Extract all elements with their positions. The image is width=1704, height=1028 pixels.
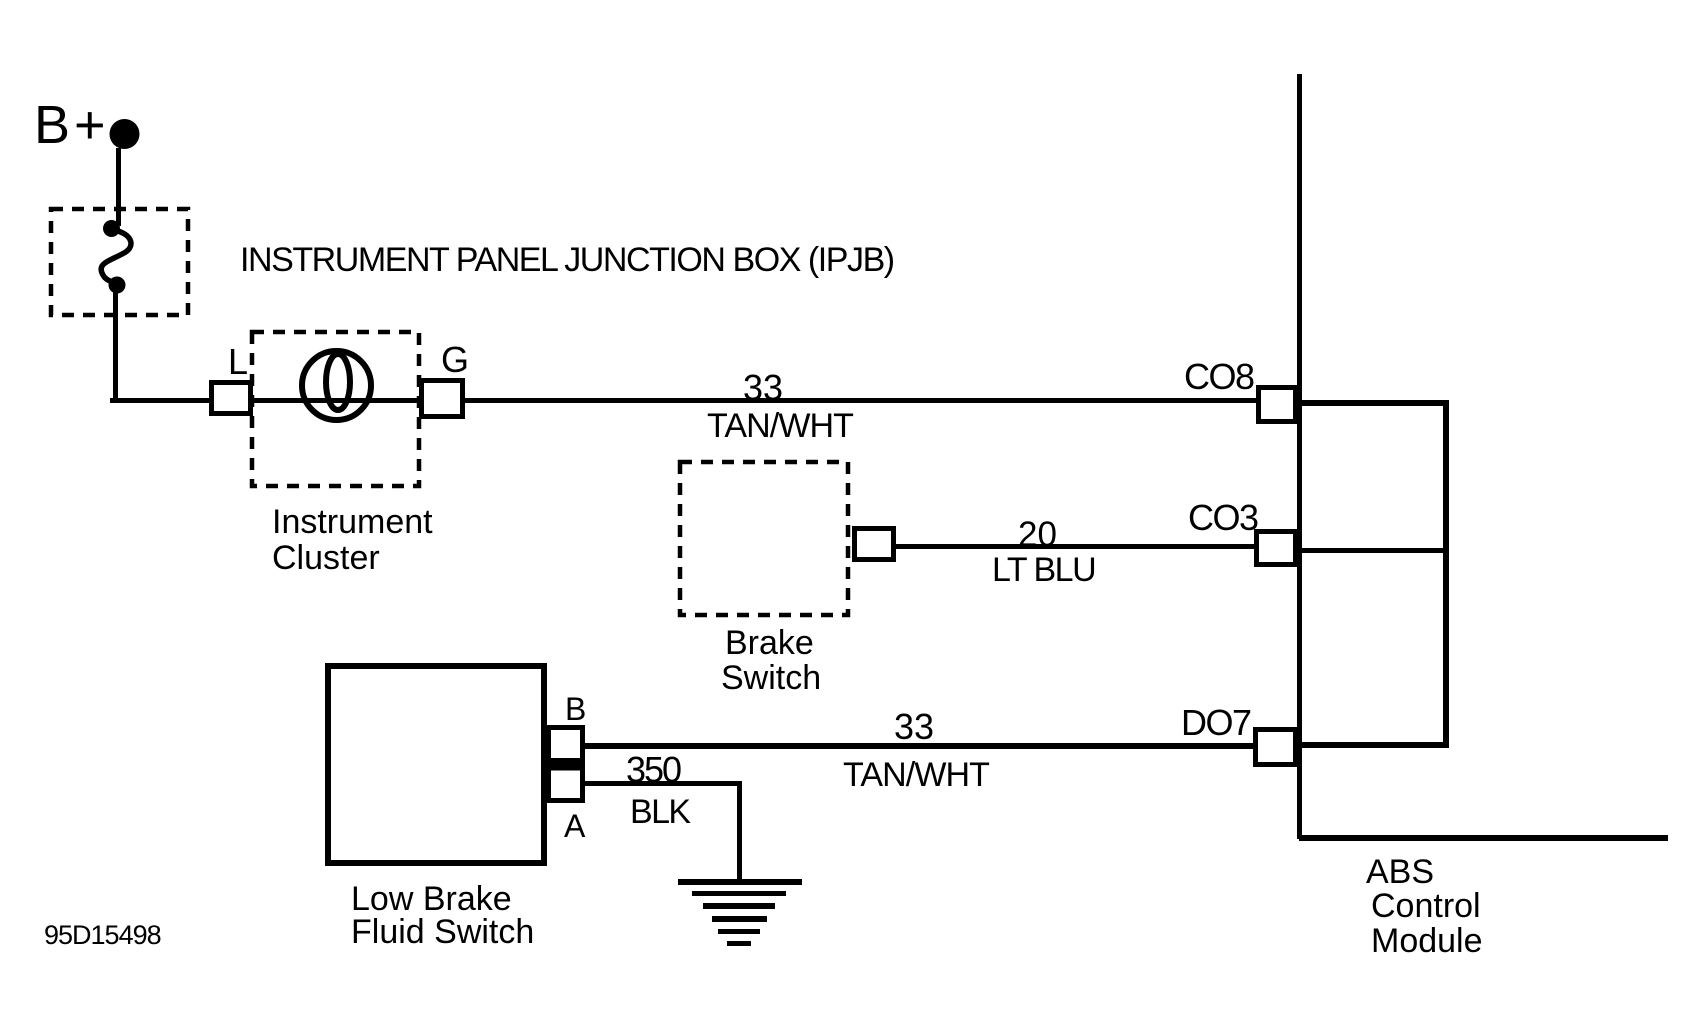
wire: ABS inner box right edge: [1443, 400, 1449, 748]
node B+ junction dot: [110, 119, 140, 149]
svg-text:TAN/WHT: TAN/WHT: [843, 756, 989, 794]
svg-text:TAN/WHT: TAN/WHT: [707, 407, 853, 445]
svg-text:DO7: DO7: [1181, 702, 1251, 743]
wire: circuit 33 TAN/WHT from pin B to DO7: [585, 743, 1255, 749]
indicator lamp filament loop: [326, 354, 350, 410]
connector CO8 square: [1259, 388, 1296, 422]
wire: circuit 350 BLK vertical drop to ground: [737, 781, 742, 880]
svg-text:LT BLU: LT BLU: [992, 551, 1095, 589]
wire: CO3 row inside ABS inner box: [1299, 548, 1449, 553]
low brake fluid switch box: [328, 666, 544, 863]
wire: fuse output down to horizontal run: [113, 291, 118, 401]
fuse element bottom terminal dot: [109, 277, 126, 294]
svg-text:Cluster: Cluster: [272, 539, 380, 577]
svg-text:33: 33: [743, 367, 783, 408]
wire: circuit 33 TAN/WHT from L through lamp and G to CO8: [253, 398, 1258, 403]
wire: circuit 350 BLK horizontal from pin A: [585, 781, 742, 786]
connector G square: [422, 381, 463, 417]
wire: ABS control module bottom edge: [1299, 835, 1668, 841]
wire: B+ feed down to fuse: [116, 148, 121, 226]
svg-text:B: B: [565, 691, 586, 727]
wire: ABS inner box bottom edge: [1299, 742, 1449, 748]
wire: circuit 20 LT BLU from brake switch to CO3: [896, 544, 1256, 549]
connector CO3 square: [1257, 532, 1296, 565]
svg-text:CO8: CO8: [1184, 356, 1254, 397]
svg-text:Instrument: Instrument: [272, 503, 433, 541]
connector pin B square: [549, 728, 583, 761]
svg-text:33: 33: [894, 706, 934, 747]
indicator lamp circle: [302, 351, 371, 420]
svg-text:Brake: Brake: [725, 624, 814, 662]
svg-text:G: G: [441, 339, 469, 380]
svg-text:L: L: [228, 341, 248, 382]
instrument cluster dashed outline: [252, 332, 419, 486]
svg-text:350: 350: [626, 749, 681, 790]
svg-text:B+: B+: [34, 95, 110, 155]
fuse element top terminal dot: [103, 220, 120, 237]
svg-text:95D15498: 95D15498: [44, 920, 161, 950]
fuse box (IPJB) dashed outline: [51, 209, 188, 315]
brake switch connector square: [855, 529, 894, 560]
fuse element squiggle: [101, 231, 131, 282]
svg-text:Module: Module: [1371, 922, 1483, 960]
svg-text:BLK: BLK: [630, 793, 691, 831]
ground symbol: [678, 879, 802, 946]
brake switch dashed outline: [680, 462, 848, 615]
junction bar between pin B and pin A squares: [546, 760, 585, 766]
wire: horizontal run from fuse to connector L: [110, 398, 255, 403]
svg-text:Fluid Switch: Fluid Switch: [351, 913, 534, 951]
svg-text:A: A: [564, 808, 586, 844]
connector DO7 square: [1256, 730, 1296, 765]
svg-text:Switch: Switch: [721, 659, 821, 697]
svg-text:ABS: ABS: [1366, 853, 1434, 891]
connector L square: [212, 383, 251, 414]
svg-text:INSTRUMENT PANEL JUNCTION BOX: INSTRUMENT PANEL JUNCTION BOX (IPJB): [240, 241, 894, 279]
wire: ABS control module left edge (vertical): [1297, 74, 1302, 839]
wire: ABS inner box top edge from CO8: [1299, 400, 1449, 406]
svg-text:Control: Control: [1371, 887, 1481, 925]
svg-text:20: 20: [1018, 515, 1057, 554]
connector pin A square: [549, 768, 583, 801]
svg-text:CO3: CO3: [1188, 497, 1258, 538]
